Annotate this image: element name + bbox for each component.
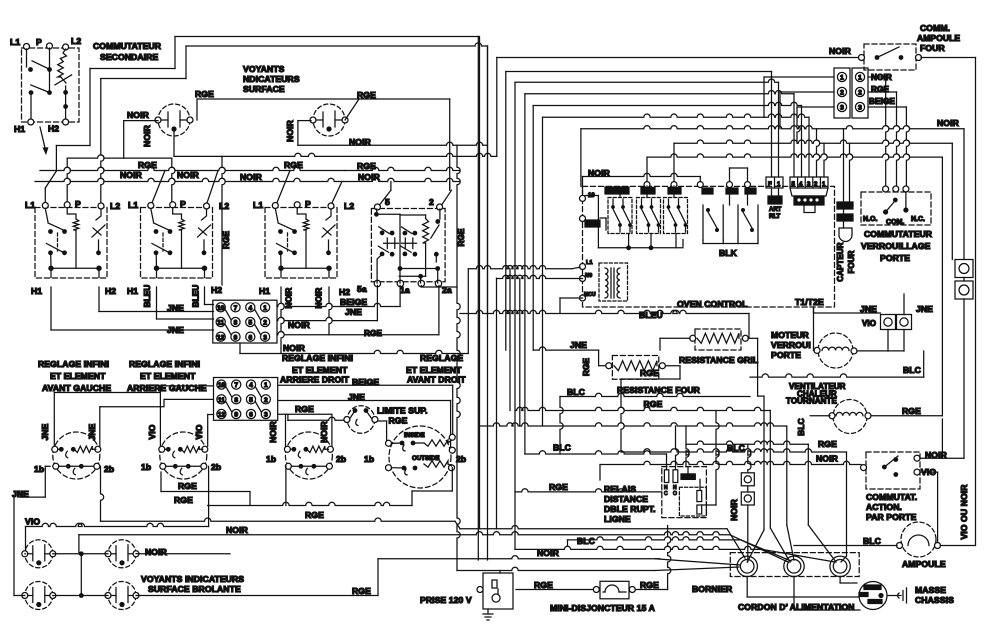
label rge bus1 xyxy=(138,160,157,170)
svg-text:P: P xyxy=(36,37,42,47)
wire noir comm ampoule xyxy=(497,58,861,157)
svg-text:3: 3 xyxy=(858,105,862,112)
svg-text:PAR PORTE: PAR PORTE xyxy=(866,512,917,522)
svg-text:RGE: RGE xyxy=(457,228,466,246)
svg-text:N0: N0 xyxy=(585,273,592,279)
svg-text:NOIR: NOIR xyxy=(240,172,263,182)
svg-text:2b: 2b xyxy=(211,462,221,472)
label rge bus2 xyxy=(240,160,303,182)
svg-text:ARRIERE GAUCHE: ARRIERE GAUCHE xyxy=(127,383,207,393)
label reglage1 xyxy=(38,359,111,393)
svg-text:H1: H1 xyxy=(14,124,25,134)
labels b3 xyxy=(266,421,346,464)
svg-text:T1/T2E: T1/T2E xyxy=(795,297,824,307)
svg-text:ET ELEMENT: ET ELEMENT xyxy=(140,371,196,381)
relay contacts right xyxy=(703,186,758,240)
svg-text:BLC: BLC xyxy=(553,443,571,453)
label rge vent xyxy=(902,406,921,416)
resistance four box xyxy=(606,356,666,380)
art rlt connector xyxy=(768,188,782,220)
svg-text:1: 1 xyxy=(777,182,781,188)
ampoule xyxy=(897,522,941,557)
svg-text:2: 2 xyxy=(858,90,862,97)
f1 strip xyxy=(766,177,783,188)
burner switch 1 xyxy=(52,432,101,479)
wire H1 box1 xyxy=(51,287,214,330)
label noir fan xyxy=(537,548,560,558)
wire stair C xyxy=(480,423,795,560)
mini disjoncteur xyxy=(593,581,635,599)
svg-text:N.C.: N.C. xyxy=(911,216,925,223)
wire stair B xyxy=(515,407,790,562)
svg-text:2b: 2b xyxy=(456,454,466,464)
svg-text:5a: 5a xyxy=(357,284,367,294)
wire rge row1 xyxy=(174,491,412,506)
label comm ampoule four xyxy=(917,23,960,53)
screw bt2 xyxy=(741,492,754,505)
wire blc left xyxy=(560,393,750,454)
svg-text:RGE: RGE xyxy=(178,481,197,491)
oven pin wires xyxy=(620,186,674,198)
wire limite link xyxy=(288,414,347,420)
svg-text:BLEU: BLEU xyxy=(639,310,663,320)
wire left feed1 xyxy=(45,69,175,204)
label noir ca xyxy=(925,450,948,460)
label relais xyxy=(604,484,656,524)
arrow xyxy=(40,127,49,155)
wire xfmr2 xyxy=(497,275,583,278)
svg-text:4: 4 xyxy=(799,182,803,188)
wire ca nc xyxy=(920,472,938,542)
wire ampoule right xyxy=(941,419,976,546)
svg-text:SECONDAIRE: SECONDAIRE xyxy=(100,52,158,62)
wire relais verts xyxy=(667,411,720,506)
svg-text:NOIR: NOIR xyxy=(127,110,150,120)
wire tb1 r2 jne xyxy=(277,286,377,321)
svg-text:2: 2 xyxy=(264,397,268,404)
svg-text:H2: H2 xyxy=(48,124,59,134)
svg-text:AMPOULE: AMPOULE xyxy=(917,33,960,43)
wire bus v 496.5 xyxy=(496,278,498,529)
wire lamp2 diag xyxy=(345,99,359,120)
comm ampoule four switch xyxy=(859,47,922,61)
bornier term3 xyxy=(830,556,850,576)
svg-text:REGLAGE INFINI: REGLAGE INFINI xyxy=(129,359,200,369)
wire lamp2 left xyxy=(298,121,311,146)
wire lamp1 left xyxy=(124,120,158,122)
label noir lamp1 xyxy=(127,110,150,120)
svg-text:10: 10 xyxy=(218,382,226,389)
wire limite right xyxy=(378,421,387,442)
svg-text:L1: L1 xyxy=(128,200,138,210)
svg-text:8: 8 xyxy=(234,320,238,327)
wire tb2 r3 rge xyxy=(278,414,332,446)
wire blk right xyxy=(683,240,758,247)
labels box3 xyxy=(253,199,354,297)
wire bus drop L1b xyxy=(151,171,165,206)
label noir tb below xyxy=(283,343,306,353)
svg-text:L1: L1 xyxy=(25,200,35,210)
svg-text:ET ELEMENT: ET ELEMENT xyxy=(50,371,106,381)
burner switch 4 double xyxy=(386,426,456,488)
svg-text:H2: H2 xyxy=(339,287,350,297)
label voyants indicateurs surface xyxy=(243,64,300,94)
label rge vert rf xyxy=(582,358,591,376)
svg-text:N.O.: N.O. xyxy=(863,216,877,223)
wire disj right xyxy=(636,526,671,590)
screw term jne1 xyxy=(881,315,896,330)
label cordon xyxy=(738,602,855,612)
wire vent right xyxy=(871,415,942,417)
verrouillage box xyxy=(861,186,931,225)
label noir lamps xyxy=(145,547,168,557)
wire noir 570 xyxy=(222,231,655,573)
svg-text:TOURNANTE: TOURNANTE xyxy=(786,397,838,406)
svg-text:RGE: RGE xyxy=(295,404,314,414)
wire bus drop 5 xyxy=(379,182,391,206)
wire tb1 r1 beige xyxy=(277,286,400,307)
label blk xyxy=(702,188,756,258)
wire bus v 487.5 xyxy=(487,46,489,314)
label noir tb right xyxy=(288,320,311,330)
wire nest6 xyxy=(581,126,964,260)
wire stair A xyxy=(747,396,764,562)
wire b4 bottom xyxy=(412,468,452,491)
label limite sup xyxy=(377,406,428,416)
bornier term1 xyxy=(737,556,757,576)
wire fan5 xyxy=(655,559,740,565)
wire bus drop L2b xyxy=(206,171,218,206)
svg-text:2b: 2b xyxy=(336,454,346,464)
label noir comm amp xyxy=(829,46,852,56)
svg-text:NOIR: NOIR xyxy=(120,170,143,180)
svg-text:3: 3 xyxy=(840,105,844,112)
wire lamp left2 xyxy=(14,497,25,595)
oven top pins xyxy=(644,182,751,188)
indicator lamp 1 xyxy=(155,104,193,136)
wire prise right xyxy=(516,589,593,591)
svg-text:BORNIER: BORNIER xyxy=(692,584,733,594)
svg-text:L2: L2 xyxy=(110,201,120,211)
screw term right 1 xyxy=(955,260,973,278)
svg-text:1a: 1a xyxy=(400,285,410,295)
svg-text:FOUR: FOUR xyxy=(920,43,945,53)
screw term jne2 xyxy=(897,315,912,330)
svg-text:RGE: RGE xyxy=(818,439,837,449)
wire bus v 519.8 xyxy=(519,278,521,426)
svg-text:C: C xyxy=(664,491,668,497)
svg-text:NOIR: NOIR xyxy=(358,172,381,182)
label mini disjoncteur xyxy=(550,603,655,613)
svg-text:LIMITE SUP.: LIMITE SUP. xyxy=(377,406,428,416)
label noir vertical lamp2 xyxy=(285,119,295,142)
svg-text:DBL RLY: DBL RLY xyxy=(606,189,628,195)
svg-text:BEIGE: BEIGE xyxy=(869,97,895,106)
wire rf left down xyxy=(621,379,624,452)
svg-text:OUTSIDE: OUTSIDE xyxy=(412,455,440,462)
svg-text:CHASSIS: CHASSIS xyxy=(915,595,954,605)
wire lamp left1 xyxy=(24,553,27,555)
wire tb2 r2 jne xyxy=(278,401,451,448)
labels b2 xyxy=(141,424,221,472)
label noir lamp2 xyxy=(349,137,372,147)
wire bus v 580.9 xyxy=(580,129,582,187)
svg-text:4: 4 xyxy=(248,305,252,312)
label prise xyxy=(420,595,472,605)
label ventilateur xyxy=(786,382,846,406)
relais box xyxy=(662,467,707,518)
svg-text:9: 9 xyxy=(234,334,238,341)
label bleu2 xyxy=(192,285,201,308)
infinite switch box 2 xyxy=(141,202,213,278)
wire bus v 479.5 xyxy=(479,37,481,529)
svg-text:N1A: N1A xyxy=(587,222,598,228)
svg-text:RGE: RGE xyxy=(389,416,408,426)
svg-text:ACTION.: ACTION. xyxy=(866,502,902,512)
label blc fan xyxy=(577,536,595,546)
wire comm ampoule right xyxy=(921,58,976,545)
wire lamps row1 xyxy=(53,551,230,556)
wire sel 4th xyxy=(421,286,457,288)
labels box2 xyxy=(127,199,229,296)
label blc left xyxy=(567,387,585,397)
svg-text:RELAIS: RELAIS xyxy=(604,484,636,494)
svg-text:9: 9 xyxy=(234,412,238,419)
wire nest1 xyxy=(506,72,772,178)
svg-text:JNE: JNE xyxy=(570,340,587,350)
svg-text:11: 11 xyxy=(217,320,224,327)
wire tb2 L3 xyxy=(208,415,214,447)
svg-text:NOIR: NOIR xyxy=(319,421,329,443)
svg-text:1b: 1b xyxy=(141,462,151,472)
prise 120v xyxy=(477,573,513,620)
svg-text:CVB: CVB xyxy=(669,189,681,195)
wire jne rf xyxy=(533,347,605,366)
relay DLB xyxy=(605,187,632,234)
svg-text:COMM.: COMM. xyxy=(920,23,950,33)
wire noir to P1 P2 xyxy=(67,121,175,204)
svg-text:NOIR: NOIR xyxy=(142,124,152,147)
svg-text:3: 3 xyxy=(263,334,267,341)
wire masse xyxy=(888,588,907,603)
wire conn left2 xyxy=(780,92,834,129)
svg-text:COMMUTATEUR: COMMUTATEUR xyxy=(93,41,162,51)
svg-text:JNE: JNE xyxy=(40,423,50,440)
svg-text:COMMUTAT.: COMMUTAT. xyxy=(866,492,917,502)
burner switch 2 xyxy=(159,432,208,479)
limite sup switch xyxy=(344,406,378,434)
capteur four xyxy=(836,129,856,282)
wire xfmr1 xyxy=(468,266,580,269)
svg-text:P: P xyxy=(305,199,311,209)
wire vent left xyxy=(810,415,830,417)
svg-text:ET ELEMENT: ET ELEMENT xyxy=(292,365,348,375)
wire bus v 542.5 xyxy=(542,117,544,426)
svg-text:BEIGE: BEIGE xyxy=(352,377,379,387)
svg-text:6: 6 xyxy=(248,334,252,341)
wire tb2 r1 beige xyxy=(278,385,453,434)
svg-text:NOIR: NOIR xyxy=(829,46,852,56)
label noir vert bt xyxy=(729,499,739,521)
svg-text:1: 1 xyxy=(858,75,862,82)
svg-text:SURFACE BROLANTE: SURFACE BROLANTE xyxy=(148,584,241,594)
wire rge top xyxy=(197,99,450,190)
svg-text:NOIR: NOIR xyxy=(226,525,249,535)
svg-text:H2: H2 xyxy=(105,286,116,296)
svg-text:5: 5 xyxy=(249,397,253,404)
wire conn left3 xyxy=(797,107,834,143)
label blc motor xyxy=(903,365,921,375)
label commutateur secondaire xyxy=(93,41,162,62)
wire pin1 riser xyxy=(824,143,827,177)
svg-text:CORDON D’ ALIMENTATION: CORDON D’ ALIMENTATION xyxy=(738,602,855,612)
label noir bus2 xyxy=(177,170,200,180)
plug cordon xyxy=(859,582,887,610)
resistance gril box xyxy=(690,329,749,350)
svg-text:RGE: RGE xyxy=(640,368,659,378)
svg-text:RGE: RGE xyxy=(640,580,659,590)
svg-text:VOYANTS INDICATEURS: VOYANTS INDICATEURS xyxy=(141,574,244,584)
label reglage3 xyxy=(280,353,353,385)
wire line 143 xyxy=(674,140,952,184)
wire noir 466 xyxy=(600,454,861,481)
svg-text:10: 10 xyxy=(217,305,225,312)
label moteur verrou xyxy=(771,330,811,360)
comm ampoule four box xyxy=(864,44,916,70)
svg-text:2: 2 xyxy=(429,197,434,207)
wire bus drop L1c xyxy=(276,171,290,206)
wire b3 left xyxy=(285,414,287,505)
label rge lamp2 xyxy=(357,90,376,100)
brulante lamp 2 xyxy=(105,540,139,568)
svg-text:VIO: VIO xyxy=(194,424,204,439)
svg-text:L1: L1 xyxy=(10,37,20,47)
wire motor left xyxy=(813,307,816,350)
wire sc down1 xyxy=(887,330,889,352)
label ampoule xyxy=(902,559,946,569)
connector block right xyxy=(852,68,868,118)
svg-text:BLC: BLC xyxy=(796,418,806,436)
labels b4 xyxy=(364,454,466,464)
svg-text:REGLAGE: REGLAGE xyxy=(420,353,463,363)
label t1t2e xyxy=(795,297,824,307)
svg-text:2: 2 xyxy=(840,90,844,97)
selector switch box xyxy=(371,204,445,287)
svg-text:AVANT DROIT: AVANT DROIT xyxy=(407,375,466,385)
svg-text:JNE: JNE xyxy=(87,423,97,440)
screw term right 2 xyxy=(955,281,973,299)
wire noir bus xyxy=(35,178,460,181)
brulante lamp 3 xyxy=(22,582,56,610)
wire bus v 505.8 xyxy=(505,72,507,351)
labels b1 xyxy=(34,423,114,474)
label jne sc2 xyxy=(916,304,933,314)
svg-text:2: 2 xyxy=(814,182,818,188)
label rge limite2 xyxy=(389,416,408,426)
wire sc down2 xyxy=(903,330,905,352)
svg-text:OVEN CONTROL: OVEN CONTROL xyxy=(677,299,747,309)
oven control box xyxy=(583,186,835,307)
svg-text:AMPOULE: AMPOULE xyxy=(902,559,946,569)
wire H2 box2 xyxy=(205,287,214,305)
wire bus v 524.9 xyxy=(524,94,526,454)
wire conn2 xyxy=(868,92,900,189)
svg-text:BLC: BLC xyxy=(863,536,881,546)
wire bt xyxy=(748,444,751,562)
svg-text:3: 3 xyxy=(264,412,268,419)
screw bt1 xyxy=(741,473,754,486)
svg-text:NDICATEURS: NDICATEURS xyxy=(243,74,300,84)
wire blc 458 xyxy=(525,443,667,455)
wire stair D xyxy=(686,426,836,562)
svg-text:L2: L2 xyxy=(344,201,354,211)
burner switch 3 xyxy=(284,432,333,479)
svg-text:NOIR: NOIR xyxy=(145,547,168,557)
svg-text:7: 7 xyxy=(234,382,238,389)
svg-text:1b: 1b xyxy=(34,464,44,474)
svg-text:RESISTANCE GRIL: RESISTANCE GRIL xyxy=(679,355,758,365)
label vio ca xyxy=(921,467,936,477)
svg-text:REGLAGE INFINI: REGLAGE INFINI xyxy=(38,359,109,369)
verrouillage switch xyxy=(863,192,925,226)
wire ca no xyxy=(920,457,964,459)
svg-text:8: 8 xyxy=(234,397,238,404)
label rge disj xyxy=(640,580,659,590)
label rge prise xyxy=(534,580,553,590)
wire fan3 xyxy=(568,537,792,561)
svg-text:JNE: JNE xyxy=(345,307,362,317)
svg-text:NOIR: NOIR xyxy=(729,499,739,521)
svg-text:RGE: RGE xyxy=(305,510,324,520)
wire rf right xyxy=(621,366,680,409)
wire rge long row xyxy=(101,466,461,528)
svg-text:COM: COM xyxy=(682,475,694,481)
svg-text:H2: H2 xyxy=(211,285,222,295)
wire bornier down3 xyxy=(840,577,857,584)
wire row 558 xyxy=(378,556,660,559)
svg-text:INSIDE: INSIDE xyxy=(404,432,425,439)
wire left feed2 xyxy=(101,79,186,205)
wire line 157 xyxy=(647,154,942,416)
wire bus v 510 xyxy=(509,269,511,411)
label noir oven xyxy=(588,168,611,178)
wire ampoule left xyxy=(727,443,897,546)
label rge tb2 xyxy=(295,404,314,414)
svg-text:NOIR: NOIR xyxy=(537,548,560,558)
svg-text:MCU: MCU xyxy=(584,292,596,298)
wire fan4 xyxy=(515,546,835,562)
wire tb1 noir below xyxy=(240,269,468,354)
svg-text:BLC: BLC xyxy=(567,387,585,397)
svg-text:AVANT GAUCHE: AVANT GAUCHE xyxy=(42,383,111,393)
wire bus drop L2c xyxy=(331,182,342,206)
infinite switch box 3 xyxy=(265,202,337,278)
label blc ampoule xyxy=(863,536,881,546)
svg-text:5: 5 xyxy=(248,320,252,327)
svg-text:L2: L2 xyxy=(71,36,81,46)
wire screw right xyxy=(952,143,964,458)
svg-text:1: 1 xyxy=(264,382,268,389)
svg-text:REGLAGE INFINI: REGLAGE INFINI xyxy=(282,353,353,363)
svg-text:NOIR: NOIR xyxy=(937,118,960,128)
brulante lamp 4 xyxy=(105,582,139,610)
wire fan1 xyxy=(460,526,745,559)
svg-text:ARRIERE DROIT: ARRIERE DROIT xyxy=(280,375,350,385)
label noir bus1 xyxy=(120,170,143,180)
selector internals xyxy=(374,209,440,283)
wire bus drop 2 xyxy=(442,182,452,206)
wire bus top2 xyxy=(186,43,488,560)
